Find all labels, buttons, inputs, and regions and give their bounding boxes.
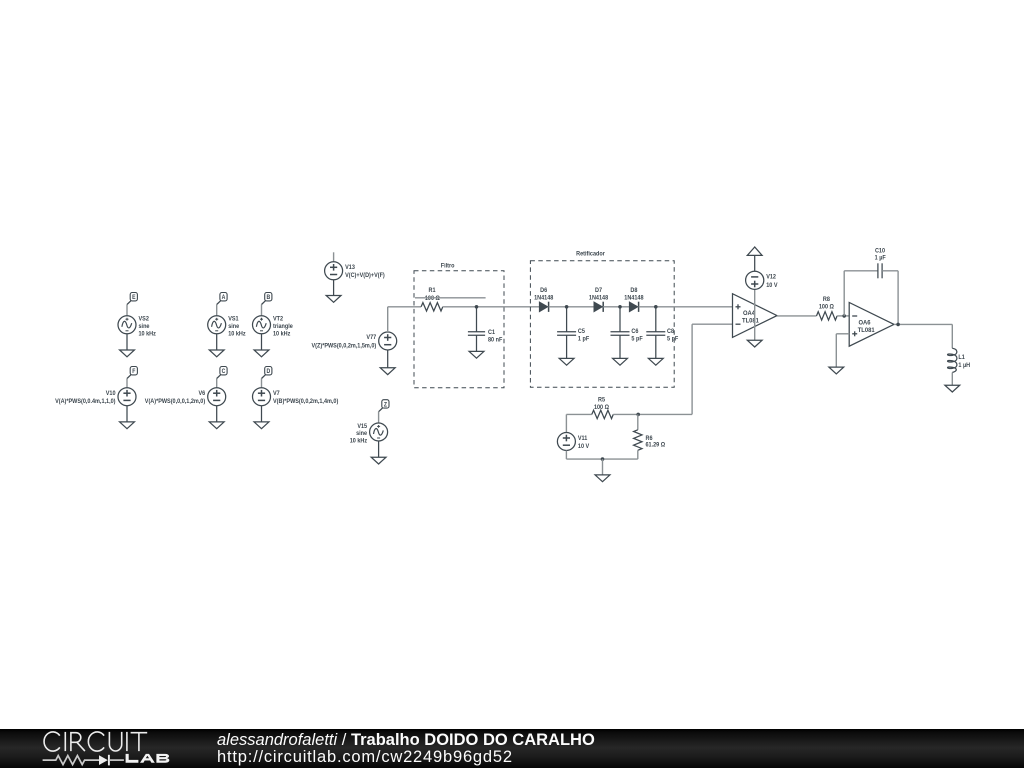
wire OA6 noninverting input: [836, 334, 849, 367]
svg-text:1 pF: 1 pF: [578, 336, 590, 342]
voltage source V13: [325, 252, 385, 279]
node junction R8 / feedback: [842, 314, 846, 318]
voltage source V13 ground: [326, 280, 341, 303]
inductor L1 (1 uH): [948, 348, 971, 372]
capacitor C5 (1 pF): [557, 307, 589, 359]
svg-text:V(B)*PWS(0,0,2m,1,4m,0): V(B)*PWS(0,0,2m,1,4m,0): [273, 399, 338, 405]
svg-text:100 Ω: 100 Ω: [819, 304, 834, 310]
voltage source V7: [253, 379, 339, 406]
resistor R1 (100 Ohm): [421, 288, 443, 311]
voltage source V6 net tag C: [217, 367, 227, 379]
node junction at C8: [654, 305, 658, 309]
wire stray segment over R1 label: [415, 297, 486, 299]
subcircuit box Filtro: [414, 263, 504, 387]
power flag arrow above V12: [747, 247, 762, 271]
capacitor C1 ground: [469, 351, 484, 358]
svg-text:V(A)*PWS(0,0,0,1,2m,0): V(A)*PWS(0,0,0,1,2m,0): [145, 399, 205, 405]
svg-text:V15: V15: [357, 424, 367, 430]
svg-text:1N4148: 1N4148: [534, 295, 554, 301]
op-amp OA4 (TL081): [733, 294, 778, 338]
voltage source VT2 (triangle 10 kHz): [253, 305, 294, 338]
svg-text:V6: V6: [198, 391, 205, 397]
svg-text:B: B: [266, 295, 270, 301]
node junction at C6: [618, 305, 622, 309]
svg-text:V10: V10: [106, 391, 116, 397]
node junction at C1: [475, 305, 479, 309]
svg-text:V11: V11: [578, 436, 588, 442]
svg-text:V(A)*PWS(0,0.4m,1,1,0): V(A)*PWS(0,0.4m,1,1,0): [55, 399, 115, 405]
diode D6 (1N4148): [534, 288, 554, 312]
bottom net ground: [595, 475, 610, 482]
svg-text:100 Ω: 100 Ω: [594, 405, 609, 411]
wire R5 to node: [613, 413, 638, 415]
svg-text:E: E: [132, 295, 136, 301]
node junction OA6 output / feedback: [896, 323, 900, 327]
wire to bottom ground: [602, 459, 604, 475]
voltage source V10: [55, 379, 136, 406]
svg-text:10 kHz: 10 kHz: [350, 438, 367, 444]
wire D6 to D7: [549, 306, 594, 308]
voltage source V7 net tag D: [262, 367, 272, 379]
svg-text:OA4: OA4: [743, 310, 755, 318]
svg-text:10 kHz: 10 kHz: [228, 331, 245, 337]
capacitor C6 ground: [613, 358, 628, 365]
node junction bottom ground net: [601, 457, 605, 461]
voltage source V11 (10 V): [557, 433, 589, 451]
svg-text:V12: V12: [766, 274, 776, 280]
svg-text:R8: R8: [823, 297, 831, 303]
svg-text:V(Z)*PWS(0,0,2m,1,5m,0): V(Z)*PWS(0,0,2m,1,5m,0): [312, 343, 377, 349]
diode D8 (1N4148): [624, 288, 644, 312]
wire V77 to R1: [388, 307, 421, 332]
voltage source VS2 (sine 10 kHz) net tag E: [127, 293, 137, 305]
svg-text:V13: V13: [345, 265, 355, 271]
svg-text:VT2: VT2: [273, 316, 284, 322]
wire R8 to OA6 inverting input: [837, 315, 849, 317]
wire V11 to R5: [566, 414, 591, 432]
svg-text:10 kHz: 10 kHz: [139, 331, 156, 337]
svg-text:OA6: OA6: [859, 319, 871, 327]
svg-text:C8: C8: [667, 329, 675, 335]
voltage source VT2 (triangle 10 kHz) ground: [254, 334, 269, 357]
svg-text:1N4148: 1N4148: [589, 295, 609, 301]
svg-text:V7: V7: [273, 391, 280, 397]
svg-text:V77: V77: [366, 335, 376, 341]
svg-text:V(C)+V(D)+V(F): V(C)+V(D)+V(F): [345, 273, 385, 279]
svg-text:5 pF: 5 pF: [667, 336, 679, 342]
svg-text:TL081: TL081: [858, 327, 875, 335]
node junction at C5: [565, 305, 569, 309]
svg-text:C10: C10: [875, 248, 886, 254]
wire feedback to C10 left: [844, 271, 878, 316]
voltage source V7 ground: [254, 406, 269, 429]
voltage source V15 (sine 10 kHz) ground: [371, 441, 386, 464]
subcircuit box Retificador: [530, 251, 674, 387]
wire OA6 output to L1: [894, 324, 952, 348]
wire V12 to OA4 power pin: [754, 289, 756, 340]
capacitor C5 ground: [559, 358, 574, 365]
capacitor C6 (5 pF): [611, 307, 644, 359]
resistor R8 (100 Ohm): [817, 297, 838, 320]
capacitor C1 (80 nF): [468, 307, 503, 352]
svg-text:triangle: triangle: [273, 324, 293, 330]
wire C10 right to OA6 output: [882, 271, 898, 325]
svg-text:R5: R5: [598, 397, 606, 403]
svg-text:Filtro: Filtro: [441, 263, 455, 269]
voltage source V6 ground: [209, 406, 224, 429]
wire L1 to ground: [951, 373, 953, 386]
svg-text:Z: Z: [384, 402, 388, 408]
svg-text:D7: D7: [595, 288, 603, 294]
op-amp OA6 input ground: [829, 367, 844, 374]
svg-text:1 µF: 1 µF: [875, 255, 886, 261]
svg-text:D8: D8: [630, 288, 638, 294]
op-amp OA6 (TL081): [849, 303, 894, 347]
CircuitLab logo resistor-diode glyph and LAB: [43, 754, 170, 766]
capacitor C10 (1 uF): [875, 248, 886, 278]
svg-text:TL081: TL081: [742, 317, 759, 325]
svg-text:1N4148: 1N4148: [624, 295, 644, 301]
wire OA4 output to R8: [777, 315, 817, 317]
CircuitLab logo wordmark: [44, 732, 147, 751]
capacitor C8 ground: [648, 358, 663, 365]
resistor R5 (100 Ohm): [592, 397, 613, 418]
svg-text:10 V: 10 V: [766, 283, 777, 289]
wire D7 to D8: [603, 306, 629, 308]
svg-text:5 pF: 5 pF: [631, 336, 643, 342]
svg-text:F: F: [132, 369, 136, 375]
voltage source V77: [312, 332, 397, 350]
svg-text:sine: sine: [139, 324, 151, 330]
voltage source VS1 (sine 10 kHz): [208, 305, 246, 338]
svg-text:C1: C1: [488, 330, 496, 336]
svg-text:L1: L1: [958, 355, 965, 361]
voltage source V10 ground: [120, 406, 135, 429]
svg-text:C6: C6: [631, 329, 639, 335]
svg-text:61.29 Ω: 61.29 Ω: [646, 442, 666, 448]
diode D7 (1N4148): [589, 288, 609, 312]
node junction R5/R6: [636, 413, 640, 417]
svg-text:100 Ω: 100 Ω: [425, 296, 440, 302]
svg-text:VS1: VS1: [228, 316, 239, 322]
voltage source V15 (sine 10 kHz) net tag Z: [379, 400, 389, 412]
svg-text:Retificador: Retificador: [576, 251, 605, 257]
inductor L1 ground: [945, 385, 960, 392]
voltage source V10 net tag F: [127, 367, 137, 379]
voltage source V6: [145, 379, 226, 406]
voltage source V12 (10 V): [746, 271, 778, 289]
svg-text:sine: sine: [228, 324, 240, 330]
svg-text:D: D: [266, 369, 270, 375]
wire OA4 inverting input to R5/R6 node: [638, 324, 732, 414]
svg-text:VS2: VS2: [139, 316, 150, 322]
voltage source VS2 (sine 10 kHz) ground: [120, 334, 135, 357]
svg-text:A: A: [222, 295, 226, 301]
svg-text:sine: sine: [356, 431, 368, 437]
capacitor C8 (5 pF): [646, 307, 678, 359]
svg-text:10 kHz: 10 kHz: [273, 331, 290, 337]
voltage source V15 (sine 10 kHz): [350, 412, 388, 445]
op-amp OA4 ground: [747, 340, 762, 347]
svg-text:D6: D6: [540, 288, 548, 294]
wire R1 to D6: [443, 306, 540, 308]
wire bottom net V11 to R6: [566, 451, 637, 460]
svg-text:C: C: [222, 369, 226, 375]
wire D8 to OA4 noninverting input: [639, 306, 733, 308]
voltage source VS2 (sine 10 kHz): [118, 305, 156, 338]
resistor R6 (61.29 Ohm): [634, 414, 666, 459]
voltage source VS1 (sine 10 kHz) ground: [209, 334, 224, 357]
svg-text:80 nF: 80 nF: [488, 337, 503, 343]
svg-text:R1: R1: [428, 288, 436, 294]
voltage source VS1 (sine 10 kHz) net tag A: [217, 293, 227, 305]
voltage source V77 ground: [380, 350, 395, 375]
svg-text:C5: C5: [578, 329, 586, 335]
svg-text:10 V: 10 V: [578, 444, 589, 450]
voltage source VT2 (triangle 10 kHz) net tag B: [262, 293, 272, 305]
svg-text:1 µH: 1 µH: [958, 363, 970, 369]
